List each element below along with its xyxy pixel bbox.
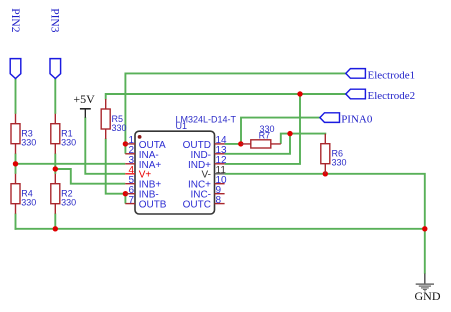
svg-text:330: 330 xyxy=(21,138,36,148)
wire pin 6 junction to pin 7 OUTB xyxy=(124,194,126,204)
U1 pin 3 stub xyxy=(125,163,135,165)
U1 pin 7 stub xyxy=(125,203,135,205)
ground GND xyxy=(415,274,441,303)
svg-text:PIN3: PIN3 xyxy=(49,8,61,33)
wire Electrode2 node down to pin 12 IND+ xyxy=(225,94,300,164)
op-amp U1 LM324L-D14-T xyxy=(135,114,237,214)
junction Electrode2 net xyxy=(297,91,302,96)
U1 pin 4 stub xyxy=(125,173,135,175)
U1 pin 8 stub xyxy=(215,203,225,205)
connector PINA0 xyxy=(320,113,373,126)
wire R3 to node A to R4 xyxy=(15,154,17,174)
junction pin 6 INB- xyxy=(123,191,128,196)
svg-text:U1: U1 xyxy=(176,121,188,131)
wire bottom bus xyxy=(15,228,425,230)
wire +5V to pin 4 V+ xyxy=(85,117,125,174)
wire R7 right up to node C xyxy=(281,134,290,144)
junction node A R3/R4/INA+ xyxy=(13,161,18,166)
U1 pin 11 stub xyxy=(215,173,225,175)
resistor R5 xyxy=(101,99,126,139)
connector PIN2 xyxy=(9,8,21,78)
wire pin 14 OUTD to R7 left xyxy=(225,143,241,145)
junction R2 bottom bus xyxy=(53,226,58,231)
U1 pin 2 stub xyxy=(125,153,135,155)
svg-text:330: 330 xyxy=(61,198,76,208)
svg-text:7: 7 xyxy=(128,195,134,206)
resistor R1 xyxy=(51,114,76,154)
U1 pin 13 stub xyxy=(215,153,225,155)
U1 pin 5 stub xyxy=(125,183,135,185)
svg-text:330: 330 xyxy=(61,138,76,148)
wire R5 bottom to pin 6 INB- junction xyxy=(106,139,125,194)
junction node C R7/R6/IND- xyxy=(287,131,292,136)
U1 pin 10 stub xyxy=(215,183,225,185)
svg-text:PINA0: PINA0 xyxy=(341,113,373,125)
wire Electrode1 to pin 1 OUTA and pin 2 INA- xyxy=(125,73,346,153)
resistor R2 xyxy=(51,174,76,214)
power +5V xyxy=(73,92,95,118)
U1 pin 6 stub xyxy=(125,193,135,195)
svg-text:330: 330 xyxy=(21,198,36,208)
U1 pin 14 stub xyxy=(215,143,225,145)
svg-text:+5V: +5V xyxy=(73,92,95,106)
wire Electrode2 to R5 top xyxy=(106,94,347,100)
svg-text:330: 330 xyxy=(112,123,127,133)
svg-text:OUTB: OUTB xyxy=(139,199,167,210)
U1 pin 12 stub xyxy=(215,163,225,165)
wire pin 11 V- to GND vertical xyxy=(225,174,425,274)
wire R1 to node B to R2 xyxy=(54,154,56,174)
svg-text:OUTC: OUTC xyxy=(183,199,211,210)
U1 pin 1 stub xyxy=(125,143,135,145)
connector Electrode2 xyxy=(346,89,415,102)
wire R4 to bottom bus xyxy=(15,214,17,230)
junction pin 14 OUTD / R7 / PINA0 xyxy=(238,141,243,146)
junction R6 bottom / V- net xyxy=(323,171,328,176)
svg-text:GND: GND xyxy=(415,289,441,303)
junction pin 1 OUTA xyxy=(123,141,128,146)
connector Electrode1 xyxy=(346,69,415,82)
wire node A to pin 3 INA+ xyxy=(16,163,126,165)
resistor R4 xyxy=(11,174,36,214)
wire PINA0 to pin 14 node xyxy=(241,118,320,143)
U1 pin 9 stub xyxy=(215,193,225,195)
wire node C to R6 top xyxy=(289,133,325,136)
svg-text:Electrode1: Electrode1 xyxy=(368,69,416,81)
wire node C down to pin 13 IND- xyxy=(225,134,290,154)
resistor R7 xyxy=(241,124,281,148)
wire node B jog to pin 5 INB+ xyxy=(55,169,125,184)
wire R2 to bottom bus xyxy=(54,214,56,230)
junction bottom bus / GND vertical xyxy=(422,226,427,231)
junction node B R1/R2/INB+ xyxy=(53,166,58,171)
connector PIN3 xyxy=(49,8,61,78)
wire PIN3 to R1 xyxy=(54,79,56,114)
resistor R6 xyxy=(321,134,347,174)
wire PIN2 to R3 xyxy=(15,79,17,114)
svg-text:Electrode2: Electrode2 xyxy=(368,90,416,102)
svg-text:R7: R7 xyxy=(259,131,271,141)
svg-text:330: 330 xyxy=(332,158,347,168)
svg-text:PIN2: PIN2 xyxy=(9,8,21,33)
resistor R3 xyxy=(11,114,36,154)
svg-text:8: 8 xyxy=(216,195,222,206)
